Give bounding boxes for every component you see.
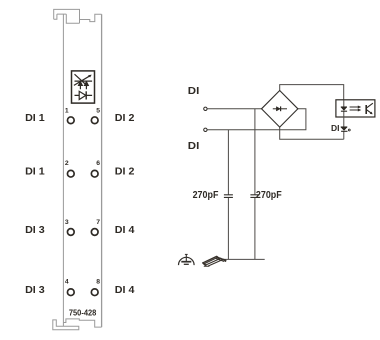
svg-text:DI 1: DI 1 bbox=[25, 113, 45, 124]
svg-text:5: 5 bbox=[96, 107, 100, 114]
svg-text:DI 3: DI 3 bbox=[25, 225, 45, 236]
svg-text:DI 4: DI 4 bbox=[115, 225, 135, 236]
svg-text:DI 3: DI 3 bbox=[25, 285, 45, 296]
svg-text:DI: DI bbox=[331, 123, 340, 133]
svg-text:1: 1 bbox=[65, 108, 69, 115]
svg-text:4: 4 bbox=[65, 278, 69, 285]
svg-text:DI 4: DI 4 bbox=[115, 285, 135, 296]
svg-text:8: 8 bbox=[96, 278, 100, 285]
svg-text:750-428: 750-428 bbox=[69, 309, 97, 318]
svg-text:DI 2: DI 2 bbox=[115, 167, 135, 178]
svg-text:6: 6 bbox=[96, 160, 100, 167]
svg-text:DI 2: DI 2 bbox=[115, 113, 135, 124]
svg-text:270pF: 270pF bbox=[193, 190, 219, 201]
svg-text:DI: DI bbox=[188, 86, 200, 97]
svg-text:DI: DI bbox=[188, 141, 200, 152]
svg-text:3: 3 bbox=[65, 219, 69, 226]
svg-text:DI 1: DI 1 bbox=[25, 167, 45, 178]
svg-text:270pF: 270pF bbox=[256, 190, 282, 201]
svg-text:7: 7 bbox=[96, 219, 100, 226]
svg-text:2: 2 bbox=[65, 160, 69, 167]
